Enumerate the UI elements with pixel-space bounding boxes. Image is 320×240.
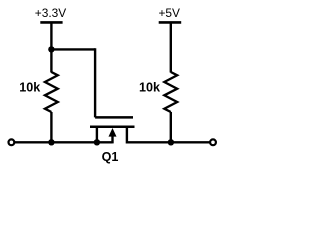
svg-text:10k: 10k <box>139 81 161 95</box>
wire rail to resistor R2 <box>170 22 172 72</box>
svg-text:Q1: Q1 <box>102 150 119 164</box>
transistor Q1 channel bar <box>90 126 135 129</box>
power rail +5V bar <box>159 21 182 24</box>
transistor Q1 gate bar <box>95 116 133 119</box>
transistor Q1 bulk arrow head <box>109 128 117 137</box>
wire gate tap horizontal <box>51 48 95 50</box>
svg-text:+5V: +5V <box>158 6 180 20</box>
node gate-tap junction <box>48 46 54 52</box>
svg-text:+3.3V: +3.3V <box>35 6 66 20</box>
wire drain drop and bottom right net <box>127 127 210 143</box>
wire R2 bottom lead <box>170 112 172 142</box>
resistor R1 10k left <box>45 72 58 112</box>
resistor R2 10k right <box>164 72 177 112</box>
power rail +3.3V bar <box>40 21 62 24</box>
transistor Q1 bulk arrow shaft <box>111 136 113 144</box>
wire bottom left net <box>14 141 112 143</box>
node source junction <box>94 139 100 145</box>
node left resistor junction <box>48 139 54 145</box>
wire rail to resistor R1 <box>50 22 52 72</box>
svg-text:10k: 10k <box>19 81 41 95</box>
terminal left open circle <box>9 139 15 145</box>
terminal right open circle <box>210 139 216 145</box>
wire gate riser vertical <box>94 48 96 117</box>
node right resistor junction <box>168 139 174 145</box>
wire source drop <box>96 127 98 143</box>
wire R1 bottom lead <box>50 112 52 142</box>
